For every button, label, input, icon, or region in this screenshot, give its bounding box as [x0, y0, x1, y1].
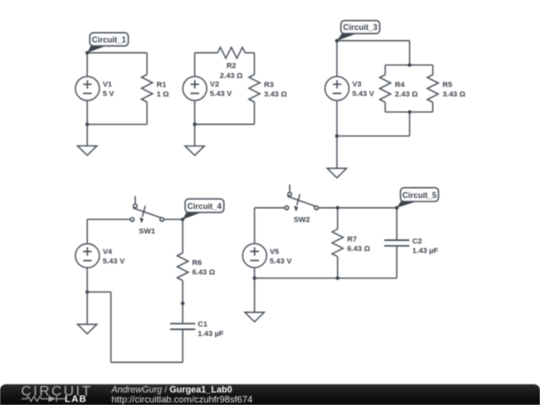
svg-text:Circuit_5: Circuit_5 — [402, 191, 437, 200]
node bottom circuit 3 — [335, 134, 339, 138]
svg-text:6.43 Ω: 6.43 Ω — [347, 244, 370, 253]
wire bottom rail circuit 3 — [337, 135, 410, 137]
svg-text:R4: R4 — [395, 80, 405, 89]
wire top-left circuit 2 — [195, 52, 218, 54]
svg-text:5 V: 5 V — [103, 89, 115, 98]
wire bottom rail circuit 1 — [87, 123, 147, 125]
svg-text:V3: V3 — [352, 80, 361, 89]
wire V3 top stub — [336, 41, 338, 77]
wire top rail circuit 1 — [87, 52, 147, 54]
wire V5 top stub — [254, 208, 256, 244]
node bottom circuit 1 — [85, 123, 89, 127]
svg-text:5.43 V: 5.43 V — [270, 256, 293, 265]
svg-text:http://circuitlab.com/czuhfr98: http://circuitlab.com/czuhfr98sf674 — [112, 394, 253, 404]
switch SW2 — [285, 185, 319, 224]
node R7 bottom circuit 5 — [336, 276, 340, 280]
wire top rail circuit 3 — [337, 40, 410, 42]
svg-text:V1: V1 — [103, 80, 113, 89]
resistor R1 — [142, 53, 170, 125]
svg-text:R5: R5 — [443, 80, 453, 89]
voltage source V4 — [75, 244, 125, 268]
label Circuit_3 — [337, 21, 380, 41]
wire V1 top stub — [86, 53, 88, 77]
svg-text:SW1: SW1 — [139, 227, 156, 236]
svg-text:3.43 Ω: 3.43 Ω — [443, 90, 466, 99]
wire bottom rail circuit 5 — [255, 277, 397, 279]
node R7 top circuit 5 — [336, 206, 340, 210]
svg-text:R1: R1 — [157, 80, 167, 89]
node parallel top circuit 3 — [408, 63, 412, 67]
node bottom circuit 4 — [85, 290, 89, 294]
wire V2 top stub — [194, 53, 196, 77]
svg-text:Circuit_3: Circuit_3 — [343, 23, 378, 32]
svg-text:Circuit_1: Circuit_1 — [92, 35, 127, 44]
svg-text:LAB: LAB — [65, 393, 87, 404]
svg-text:3.43 Ω: 3.43 Ω — [264, 89, 287, 98]
wire V4 top stub — [86, 219, 88, 244]
wire top-right circuit 2 — [245, 52, 254, 54]
resistor R7 — [332, 208, 370, 278]
wire parallel bottom rail circuit 3 — [385, 111, 433, 113]
resistor R6 — [177, 219, 215, 303]
node bottom circuit 2 — [193, 123, 197, 127]
CircuitLab logo resistor-diode glyph — [22, 396, 66, 402]
resistor R2 — [218, 47, 246, 80]
wire right drop circuit 3 — [409, 41, 411, 65]
voltage source V2 — [183, 77, 233, 101]
label Circuit_4 — [183, 199, 224, 220]
ground circuit 2 — [185, 124, 204, 155]
wire left riser circuit 4 — [110, 292, 112, 362]
svg-text:6.43 Ω: 6.43 Ω — [192, 268, 215, 277]
ground circuit 1 — [78, 124, 97, 155]
wire V1 bottom stub — [86, 101, 88, 125]
voltage source V3 — [325, 77, 375, 101]
svg-text:5.43 V: 5.43 V — [210, 89, 233, 98]
svg-text:2.43 Ω: 2.43 Ω — [395, 90, 418, 99]
ground circuit 5 — [245, 278, 264, 322]
wire bottom rail circuit 2 — [195, 123, 255, 125]
label Circuit_5 — [397, 188, 439, 208]
svg-text:1.43 µF: 1.43 µF — [412, 246, 438, 255]
ground circuit 3 — [327, 136, 346, 178]
voltage source V5 — [243, 244, 293, 268]
voltage source V1 — [75, 77, 115, 101]
svg-text:Circuit_4: Circuit_4 — [187, 202, 222, 211]
node V5 bottom circuit 5 — [253, 276, 257, 280]
resistor R4 — [380, 65, 418, 112]
capacitor C1 — [170, 303, 224, 362]
resistor R3 — [249, 53, 287, 125]
svg-text:C2: C2 — [412, 236, 422, 245]
wire right riser bottom circuit 3 — [409, 112, 411, 136]
node top circuit 4 — [181, 218, 185, 222]
svg-text:R7: R7 — [347, 234, 357, 243]
wire switch to node circuit 4 — [164, 218, 183, 220]
svg-text:C1: C1 — [198, 320, 208, 329]
svg-text:2.43 Ω: 2.43 Ω — [220, 71, 243, 80]
wire top rail left circuit 5 — [255, 207, 285, 209]
svg-text:5.43 V: 5.43 V — [103, 257, 126, 266]
label Circuit_1 — [87, 33, 128, 53]
ground circuit 4 — [78, 292, 97, 334]
resistor R5 — [427, 65, 465, 112]
wire top rail left circuit 4 — [87, 218, 130, 220]
wire switch to corner circuit 5 — [319, 207, 397, 209]
wire V2 bottom stub — [194, 101, 196, 125]
node parallel bottom circuit 3 — [408, 110, 412, 114]
svg-text:V5: V5 — [270, 247, 280, 256]
wire V5 bottom stub — [254, 268, 256, 279]
switch SW1 — [130, 196, 164, 235]
footer background bar — [0, 384, 540, 405]
wire node to riser circuit 4 — [87, 291, 111, 293]
svg-text:AndrewGurg / Gurgea1_Lab0: AndrewGurg / Gurgea1_Lab0 — [111, 384, 233, 394]
svg-text:R3: R3 — [264, 80, 274, 89]
svg-text:V4: V4 — [103, 247, 113, 256]
svg-text:1.43 µF: 1.43 µF — [198, 329, 224, 338]
node corner circuit 5 — [395, 206, 399, 210]
wire V3 bottom stub — [336, 101, 338, 137]
wire V4 bottom stub — [86, 268, 88, 292]
wire parallel top rail circuit 3 — [385, 64, 433, 66]
capacitor C2 — [384, 208, 438, 278]
svg-text:5.43 V: 5.43 V — [352, 89, 375, 98]
node top-left circuit 1 — [85, 51, 89, 55]
svg-text:SW2: SW2 — [294, 215, 310, 224]
node mid circuit 4 — [181, 302, 185, 306]
node top-left circuit 3 — [335, 39, 339, 43]
wire bottom rail circuit 4 — [111, 361, 183, 363]
svg-text:R2: R2 — [226, 61, 236, 70]
svg-text:V2: V2 — [210, 80, 219, 89]
svg-text:1 Ω: 1 Ω — [157, 89, 169, 98]
svg-text:R6: R6 — [192, 258, 202, 267]
